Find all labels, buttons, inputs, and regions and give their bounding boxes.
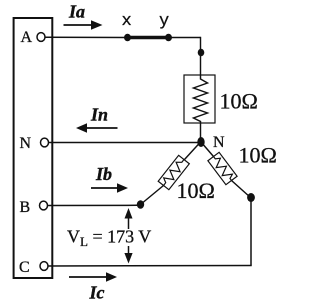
wire node N to resistor R2 [185, 142, 201, 160]
node x [124, 34, 131, 41]
current arrow Ib [91, 183, 128, 193]
wire corner down to resistor [200, 37, 202, 76]
current arrow In [76, 123, 118, 133]
wire C line [48, 265, 252, 268]
svg-text:Ib: Ib [95, 164, 112, 184]
wire R2 to B line [141, 186, 164, 205]
svg-text:N: N [20, 135, 32, 152]
svg-text:Ia: Ia [68, 1, 85, 21]
terminal N [41, 138, 49, 147]
resistor R3 (phase c, diagonal) [208, 152, 237, 184]
wire N terminal to node N [48, 142, 198, 144]
svg-text:C: C [19, 259, 30, 276]
source box [14, 18, 53, 278]
resistor R1 (phase a) [184, 75, 215, 123]
node b on B line [137, 200, 144, 209]
junction dot on right vertical wire [198, 49, 205, 57]
wire node c down [250, 198, 252, 266]
svg-text:10Ω: 10Ω [220, 89, 258, 114]
wire A to node x [45, 36, 128, 38]
node y [165, 34, 172, 41]
svg-text:10Ω: 10Ω [177, 178, 215, 203]
current arrow Ic [69, 272, 117, 282]
node N [197, 137, 204, 147]
svg-text:B: B [20, 199, 31, 216]
svg-text:A: A [21, 29, 33, 46]
terminal B [40, 201, 48, 210]
svg-text:x: x [122, 12, 132, 31]
resistor R2 (phase b, diagonal) [158, 155, 189, 189]
voltage arrow down (VL) [124, 246, 132, 264]
node c (right) [247, 193, 255, 202]
svg-text:10Ω: 10Ω [239, 143, 277, 168]
svg-text:In: In [90, 105, 108, 125]
wire resistor to node N [200, 123, 202, 142]
current arrow Ia [64, 20, 103, 30]
svg-text:N: N [213, 134, 225, 151]
wire thick bar x to y [128, 36, 169, 40]
svg-text:VL = 173 V: VL = 173 V [67, 227, 151, 250]
voltage arrow up (VL) [125, 208, 133, 229]
terminal C [40, 262, 48, 271]
terminal A [37, 33, 45, 42]
wire B terminal to node b [47, 204, 137, 206]
wire R3 to corner dot [232, 181, 251, 198]
wire y to corner [169, 37, 201, 39]
svg-text:Ic: Ic [89, 283, 105, 303]
svg-text:y: y [159, 12, 169, 31]
wire node N to resistor R3 [201, 142, 214, 157]
